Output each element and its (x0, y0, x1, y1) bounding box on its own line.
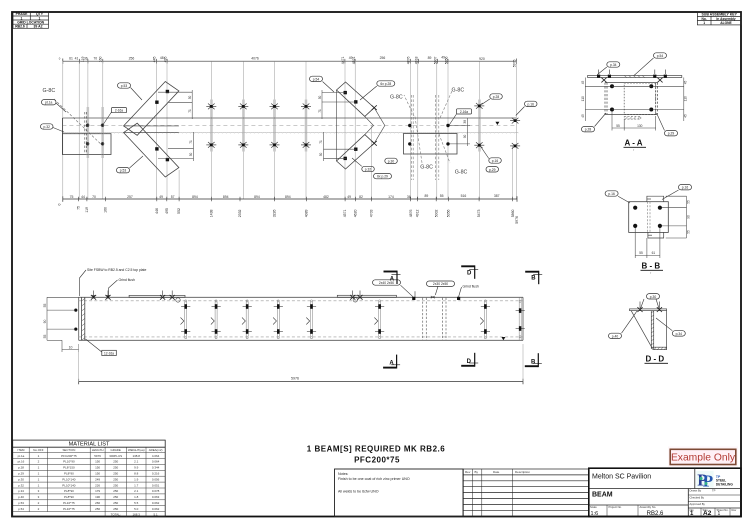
svg-text:p.16: p.16 (527, 102, 534, 106)
svg-text:p.34: p.34 (610, 63, 617, 67)
svg-text:495: 495 (165, 208, 169, 214)
svg-text:Finish to be one coat of rich: Finish to be one coat of rich zinc prime… (338, 477, 410, 481)
plan bottom dimension labels (horizontal) (70, 194, 500, 199)
svg-text:p.53: p.53 (120, 169, 127, 173)
part label pt.1a (42, 100, 67, 113)
svg-text:5976: 5976 (291, 377, 299, 381)
svg-text:3226: 3226 (272, 209, 276, 217)
plan bottom dimension line (63, 196, 517, 202)
svg-text:G-8C: G-8C (420, 164, 433, 170)
svg-text:pt.16: pt.16 (18, 460, 25, 464)
svg-text:2x30 2x50: 2x30 2x50 (433, 282, 448, 286)
svg-text:0.064: 0.064 (152, 460, 160, 464)
D-D part label p.30 (647, 294, 660, 299)
svg-text:PFC200*75: PFC200*75 (354, 456, 400, 465)
svg-text:90: 90 (43, 320, 47, 324)
left arrow plate upper (p.53) (124, 82, 179, 178)
svg-text:1:6: 1:6 (591, 511, 599, 517)
svg-text:445: 445 (152, 56, 156, 62)
svg-text:A: A (389, 361, 394, 367)
svg-text:Description: Description (515, 470, 530, 474)
beam plan web edge (dashed) (62, 131, 518, 134)
svg-text:894: 894 (223, 195, 229, 199)
right arrow plate upper (p.54) (337, 82, 385, 169)
svg-text:4620: 4620 (354, 209, 358, 217)
svg-text:110: 110 (581, 96, 585, 101)
svg-text:ITEM: ITEM (18, 448, 25, 452)
svg-text:55: 55 (43, 335, 47, 339)
plan left end bolts (86, 124, 104, 146)
svg-text:516: 516 (461, 194, 467, 198)
svg-text:71: 71 (319, 140, 323, 144)
left arrow small dims 50/71 (158, 90, 194, 161)
svg-text:552: 552 (177, 208, 181, 214)
part label p.16 far right (516, 101, 537, 115)
A-A hidden column square (624, 83, 656, 115)
D-D top flange (630, 309, 667, 311)
svg-text:G-8C: G-8C (455, 170, 468, 176)
svg-text:WEIGHT(ea): WEIGHT(ea) (128, 448, 145, 452)
svg-text:p.28: p.28 (493, 95, 500, 99)
A-A part label p.29 (657, 113, 678, 136)
part label p.54 (310, 76, 335, 92)
svg-text:PL8*150: PL8*150 (63, 466, 75, 470)
svg-text:5.1: 5.1 (154, 512, 159, 516)
svg-text:50: 50 (189, 153, 193, 157)
elevation top plate 1 (129, 295, 185, 297)
svg-text:61: 61 (652, 251, 656, 255)
svg-text:B - B: B - B (642, 262, 661, 271)
svg-text:71: 71 (188, 109, 192, 113)
phase/grid table (top-left) (13, 12, 49, 28)
D-D taper diagonal (631, 311, 652, 348)
plan right end crosses (510, 118, 520, 124)
svg-text:250: 250 (113, 483, 118, 487)
section marker A top (384, 271, 401, 284)
svg-text:All welds to be 6cfw UNO: All welds to be 6cfw UNO (338, 490, 379, 494)
svg-text:70: 70 (92, 195, 96, 199)
elevation hidden flange lines (79, 301, 523, 337)
svg-text:160: 160 (99, 56, 103, 62)
splice weld dots on top edge (412, 297, 415, 300)
svg-text:55: 55 (616, 124, 620, 128)
svg-text:Notes:: Notes: (338, 472, 348, 476)
svg-text:p.30: p.30 (650, 295, 657, 299)
section marker B bottom (525, 353, 542, 367)
part label p.16 right (481, 147, 501, 163)
svg-text:PL10*90: PL10*90 (63, 460, 75, 464)
svg-text:0.078: 0.078 (152, 489, 160, 493)
svg-text:MATERIAL LIST: MATERIAL LIST (69, 442, 110, 448)
A-A bolts (610, 84, 653, 111)
svg-text:256: 256 (380, 56, 386, 60)
svg-text:190: 190 (95, 495, 100, 499)
svg-text:250: 250 (113, 472, 118, 476)
weld triangle marker (495, 122, 499, 125)
svg-text:PL10*75: PL10*75 (63, 501, 75, 505)
svg-text:G-8C: G-8C (390, 95, 403, 101)
svg-text:0.062: 0.062 (152, 507, 160, 511)
svg-text:Rev: Rev (465, 470, 471, 474)
svg-text:GRADE: GRADE (111, 448, 121, 452)
sub assembly key table (top-right) (697, 12, 741, 25)
splice side dims 38/90 (450, 118, 471, 146)
svg-text:p.28: p.28 (18, 466, 24, 470)
boxed label 12-16a (86, 339, 117, 356)
svg-text:DETAILING: DETAILING (716, 482, 733, 486)
svg-text:495: 495 (163, 56, 167, 62)
elevation left end plate (hatched) (82, 297, 85, 340)
svg-text:Scale: Scale (590, 505, 597, 509)
svg-text:5473: 5473 (477, 209, 481, 217)
svg-text:49: 49 (347, 195, 351, 199)
svg-text:p.54: p.54 (657, 54, 664, 58)
svg-text:Melton SC Pavilion: Melton SC Pavilion (592, 474, 651, 481)
svg-text:110: 110 (684, 96, 688, 101)
svg-text:Grind flush: Grind flush (119, 278, 136, 282)
svg-text:256: 256 (95, 507, 100, 511)
left arrow bolts (155, 90, 169, 161)
svg-text:89: 89 (425, 194, 429, 198)
svg-text:p.29: p.29 (668, 132, 675, 136)
svg-text:71: 71 (318, 109, 322, 113)
svg-text:1.8: 1.8 (134, 495, 139, 499)
svg-text:Rev: Rev (732, 508, 737, 512)
svg-text:0.344: 0.344 (152, 466, 160, 470)
svg-text:PL10*140: PL10*140 (62, 483, 76, 487)
svg-text:p.53: p.53 (121, 84, 128, 88)
svg-text:Assembly No.: Assembly No. (640, 505, 657, 509)
svg-text:6x p.28: 6x p.28 (380, 82, 391, 86)
Example Only stamp (668, 447, 738, 468)
svg-text:p.34: p.34 (676, 332, 683, 336)
svg-text:1.9: 1.9 (134, 477, 139, 481)
right arrow bolts (344, 91, 358, 160)
svg-text:p.16: p.16 (608, 192, 615, 196)
bolt label 2-16a left (104, 108, 127, 125)
splice plate below beam (404, 134, 458, 155)
elevation splice stiffeners (dashed) (423, 298, 446, 340)
svg-text:RB2.6: RB2.6 (15, 25, 25, 29)
svg-text:61: 61 (69, 56, 73, 60)
svg-text:50: 50 (319, 153, 323, 157)
svg-text:5002: 5002 (434, 209, 438, 217)
svg-text:257: 257 (127, 195, 133, 199)
svg-text:LENGTH: LENGTH (92, 448, 104, 452)
svg-text:SECTION: SECTION (62, 448, 75, 452)
svg-text:150: 150 (95, 466, 100, 470)
B-B bottom dim 55/61 (635, 228, 660, 258)
svg-text:G-8C: G-8C (452, 88, 465, 94)
svg-text:0.051: 0.051 (152, 483, 160, 487)
A-A connection outline (605, 83, 657, 115)
elevation left dim chain 55/90/55 (47, 297, 79, 352)
D-D web hatched (651, 311, 653, 349)
svg-text:920: 920 (479, 57, 485, 61)
A-A part label p.28 (582, 113, 607, 132)
beam plan outline: top edge (62, 117, 516, 119)
svg-text:D - D: D - D (646, 355, 665, 364)
svg-text:p.40: p.40 (18, 495, 24, 499)
svg-text:179: 179 (95, 489, 100, 493)
svg-text:70: 70 (93, 56, 97, 60)
svg-text:2.1: 2.1 (134, 460, 139, 464)
A-A left dim 45/110/45 (585, 78, 620, 122)
svg-text:p.32: p.32 (18, 483, 24, 487)
svg-text:1438: 1438 (209, 209, 213, 217)
svg-text:G-8C: G-8C (43, 88, 56, 94)
svg-text:12-16a: 12-16a (104, 351, 114, 355)
svg-text:RB2.6: RB2.6 (647, 511, 664, 517)
svg-text:10: 10 (69, 345, 73, 349)
svg-text:2-16a: 2-16a (115, 109, 123, 113)
plan top dimension labels (horizontal) (59, 55, 485, 61)
svg-text:90: 90 (463, 135, 467, 139)
svg-text:82: 82 (359, 195, 363, 199)
svg-text:0.216: 0.216 (152, 472, 160, 476)
svg-text:p.32: p.32 (365, 168, 372, 172)
svg-text:Checked By: Checked By (690, 495, 705, 499)
weld label 2x30 2x50 (427, 281, 455, 295)
bolt label 6x p.28 (360, 81, 395, 100)
bolt hole edge double lines (210, 100, 480, 152)
elevation overall dim 5976 (79, 344, 523, 384)
part label p.32 mid (352, 158, 374, 172)
weld triangle bottom edge (501, 337, 505, 340)
A-A part label p.54 (634, 53, 667, 76)
svg-text:p.34: p.34 (18, 489, 24, 493)
svg-text:44: 44 (81, 195, 85, 199)
part label p.29 right (486, 167, 499, 172)
svg-text:p.32: p.32 (43, 125, 50, 129)
svg-text:PL8*90: PL8*90 (64, 472, 74, 476)
svg-text:150: 150 (95, 460, 100, 464)
elevation top plate 2 (337, 295, 396, 297)
svg-text:55: 55 (686, 200, 690, 204)
crosses near right end (474, 103, 484, 109)
svg-text:38: 38 (463, 120, 467, 124)
svg-text:55: 55 (639, 251, 643, 255)
svg-text:Project No.: Project No. (609, 505, 623, 509)
svg-text:150: 150 (95, 472, 100, 476)
B-B part label p.16 left (605, 191, 630, 203)
svg-text:4876: 4876 (409, 209, 413, 217)
svg-text:p.53: p.53 (18, 501, 24, 505)
svg-text:138.8: 138.8 (132, 454, 140, 458)
svg-text:5976: 5976 (513, 59, 517, 67)
notes box (335, 469, 464, 517)
svg-text:Approved By: Approved By (690, 502, 706, 506)
svg-text:0: 0 (57, 203, 61, 205)
elevation top welds left (91, 295, 96, 300)
svg-text:45: 45 (684, 81, 688, 85)
B-B plate square (629, 202, 669, 233)
svg-text:75: 75 (70, 195, 74, 199)
svg-text:50: 50 (188, 96, 192, 100)
svg-text:P: P (703, 472, 713, 491)
elevation stiffener welds (zigzag) (181, 300, 491, 339)
B-B right dim 55/90/55 (662, 196, 687, 238)
svg-text:By: By (475, 470, 479, 474)
svg-text:1: 1 (703, 21, 705, 25)
svg-text:446: 446 (155, 208, 159, 214)
A-A top plate (588, 76, 682, 78)
svg-text:130: 130 (637, 124, 643, 128)
svg-text:4089: 4089 (304, 209, 308, 217)
bolt label 2-16a right (450, 109, 472, 125)
svg-text:250: 250 (113, 489, 118, 493)
elevation right end bolts (519, 298, 521, 341)
svg-text:1 BEAM[S] REQUIRED MK RB2.6: 1 BEAM[S] REQUIRED MK RB2.6 (307, 445, 445, 454)
A-A part label p.34 (598, 62, 620, 75)
svg-text:250: 250 (113, 477, 118, 481)
svg-text:B: B (531, 275, 536, 281)
plan left end plate (62, 112, 111, 155)
svg-text:4.064: 4.064 (152, 454, 160, 458)
B-B hidden center lines (648, 202, 651, 233)
svg-text:894: 894 (192, 195, 198, 199)
svg-text:4471: 4471 (341, 56, 345, 64)
svg-text:250: 250 (113, 495, 118, 499)
svg-text:90: 90 (686, 215, 690, 219)
svg-text:p.29: p.29 (489, 168, 496, 172)
svg-text:250: 250 (113, 460, 118, 464)
plan bottom dimension labels (rotated cumulative) (57, 203, 519, 223)
svg-text:AREA(m2): AREA(m2) (149, 448, 163, 452)
A-A weld marks (597, 75, 667, 78)
svg-text:D: D (467, 359, 472, 365)
svg-text:256: 256 (129, 56, 135, 60)
svg-text:5.0: 5.0 (134, 507, 139, 511)
part label p.32 (41, 124, 65, 132)
revision table (463, 469, 589, 517)
D-D part label p.40 (609, 311, 638, 339)
svg-text:TOTAL:: TOTAL: (111, 512, 121, 516)
svg-text:0.062: 0.062 (152, 501, 160, 505)
svg-text:5976: 5976 (94, 454, 101, 458)
svg-text:PFC200*75: PFC200*75 (61, 454, 77, 458)
svg-text:0.063: 0.063 (152, 495, 160, 499)
svg-text:2.1: 2.1 (134, 489, 139, 493)
svg-text:387: 387 (494, 194, 500, 198)
splice plate bolts (408, 124, 450, 146)
svg-text:482: 482 (323, 195, 329, 199)
svg-text:5056: 5056 (446, 209, 450, 217)
TP Steel Detailing logo (696, 471, 733, 491)
svg-text:p.16: p.16 (492, 159, 499, 163)
svg-text:57: 57 (171, 195, 175, 199)
svg-text:p.29: p.29 (18, 472, 24, 476)
weld label 2x40 2x50 (373, 280, 414, 297)
svg-text:119: 119 (81, 56, 85, 62)
D-D right flange edge (666, 311, 668, 349)
svg-text:p.54: p.54 (18, 507, 24, 511)
svg-text:250: 250 (113, 466, 118, 470)
svg-text:71: 71 (189, 140, 193, 144)
D-D part label p.34 (656, 318, 685, 336)
elevation beam outline (79, 297, 523, 340)
svg-text:55: 55 (440, 194, 444, 198)
svg-text:168.3: 168.3 (132, 512, 140, 516)
A-A bottom hatched plate (624, 117, 641, 120)
section marker B top (525, 271, 542, 284)
svg-text:45: 45 (684, 114, 688, 118)
section marker D bottom (461, 353, 478, 367)
svg-text:0.056: 0.056 (152, 477, 160, 481)
svg-text:Example Only: Example Only (671, 453, 736, 464)
svg-text:A: A (390, 277, 395, 283)
svg-text:45: 45 (581, 114, 585, 118)
plan left end leader dashed diagonal (54, 99, 102, 145)
svg-text:894: 894 (254, 195, 260, 199)
svg-text:2-16a: 2-16a (460, 110, 468, 114)
splice dashed diagonals (404, 90, 453, 165)
svg-text:55: 55 (686, 230, 690, 234)
svg-text:p.30: p.30 (18, 477, 24, 481)
svg-text:5.5: 5.5 (134, 501, 139, 505)
svg-text:1: 1 (718, 511, 721, 517)
svg-text:174: 174 (388, 195, 394, 199)
svg-text:Site FSBW to RB2.5 and C2.5 to: Site FSBW to RB2.5 and C2.5 top plate (87, 268, 146, 272)
A-A bottom dim 55/130 (612, 112, 656, 131)
svg-text:45: 45 (581, 81, 585, 85)
plan tick marks on top dimension line (80, 59, 517, 65)
svg-text:250: 250 (113, 501, 118, 505)
svg-text:250: 250 (113, 507, 118, 511)
plan bottom tick marks (78, 197, 512, 202)
svg-text:226: 226 (95, 483, 100, 487)
svg-text:ALONE: ALONE (720, 21, 732, 25)
D-D bottom flange hatched (653, 347, 667, 349)
svg-text:9.9: 9.9 (134, 466, 139, 470)
section marker D top (461, 265, 478, 278)
part label p.53 upper (118, 83, 143, 100)
svg-text:4076: 4076 (251, 56, 259, 60)
svg-text:BEAM: BEAM (592, 492, 613, 499)
splice hidden verticals (411, 95, 439, 180)
svg-text:A - A: A - A (625, 139, 643, 148)
svg-text:75: 75 (76, 206, 80, 210)
svg-text:4703: 4703 (370, 209, 374, 217)
right arrow small dims 50/71 (322, 90, 356, 161)
svg-text:PL10*75: PL10*75 (63, 507, 75, 511)
B-B bolts (633, 206, 662, 228)
svg-text:p.16: p.16 (682, 186, 689, 190)
svg-text:4876: 4876 (406, 56, 410, 64)
elevation end plate bolts (74, 309, 77, 331)
section marker A bottom (383, 355, 400, 369)
bolt label 6x p.29 (374, 173, 392, 178)
svg-text:55: 55 (43, 304, 47, 308)
part label p.53 lower (117, 156, 144, 173)
extension verticals through plan view (63, 61, 517, 199)
part label p.28 right (482, 94, 503, 105)
svg-text:B: B (531, 359, 536, 365)
part label p.30 mid (385, 158, 398, 163)
svg-text:300PLUS: 300PLUS (109, 454, 122, 458)
mid-span hole crosses (206, 104, 311, 148)
svg-text:894: 894 (285, 195, 291, 199)
svg-text:4912: 4912 (415, 209, 419, 217)
svg-text:p.28: p.28 (585, 128, 592, 132)
svg-text:1.7: 1.7 (134, 483, 139, 487)
svg-text:36: 36 (407, 195, 411, 199)
A-A right dim 45/110/45 (653, 78, 684, 122)
svg-text:50: 50 (318, 96, 322, 100)
svg-text:A2: A2 (703, 510, 712, 517)
svg-text:PL8*90: PL8*90 (64, 489, 74, 493)
svg-text:89: 89 (428, 56, 432, 60)
